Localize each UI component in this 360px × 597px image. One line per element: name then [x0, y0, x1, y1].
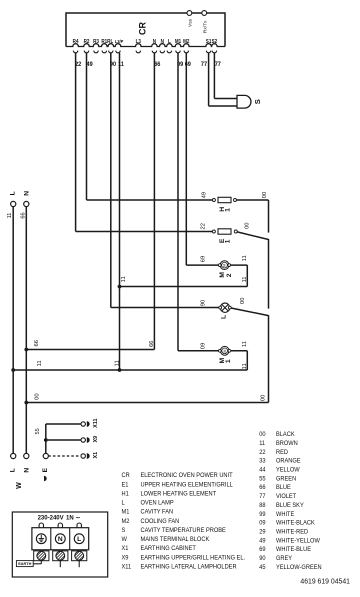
svg-text:90: 90 — [201, 300, 207, 306]
svg-text:88: 88 — [259, 502, 266, 509]
svg-text:M: M — [223, 264, 227, 267]
svg-text:COOLING FAN: COOLING FAN — [140, 517, 179, 524]
svg-text:66: 66 — [259, 484, 266, 491]
svg-text:55: 55 — [259, 475, 266, 482]
svg-text:66: 66 — [34, 340, 40, 346]
svg-text:49: 49 — [87, 62, 94, 68]
svg-text:X1: X1 — [93, 452, 99, 459]
svg-text:00: 00 — [259, 431, 266, 438]
svg-text:E: E — [42, 467, 49, 472]
svg-text:VIOLET: VIOLET — [276, 493, 296, 500]
svg-text:2: 2 — [226, 273, 233, 277]
svg-text:L: L — [220, 315, 227, 319]
svg-text:MAINS TERMINAL BLOCK: MAINS TERMINAL BLOCK — [140, 536, 209, 543]
svg-text:M: M — [219, 272, 226, 278]
svg-text:X11: X11 — [93, 419, 99, 428]
svg-text:00: 00 — [35, 393, 41, 399]
svg-text:N: N — [161, 39, 165, 45]
svg-text:L: L — [10, 468, 17, 472]
svg-text:Rx/Tx: Rx/Tx — [203, 20, 209, 33]
svg-text:R3: R3 — [93, 39, 99, 45]
svg-text:ELECTRONIC OVEN POWER UNIT: ELECTRONIC OVEN POWER UNIT — [140, 472, 232, 479]
svg-text:N: N — [153, 39, 157, 45]
svg-text:09: 09 — [201, 343, 207, 349]
svg-text:R2: R2 — [84, 39, 90, 45]
svg-text:00: 00 — [244, 222, 250, 228]
svg-text:BLUE: BLUE — [276, 484, 291, 491]
svg-text:66: 66 — [20, 212, 26, 218]
svg-text:M2: M2 — [183, 39, 190, 45]
svg-text:WHITE-BLACK: WHITE-BLACK — [276, 519, 315, 526]
svg-text:11: 11 — [121, 276, 127, 282]
svg-text:YELLOW-GREEN: YELLOW-GREEN — [276, 563, 322, 570]
svg-text:WHITE-YELLOW: WHITE-YELLOW — [276, 537, 320, 544]
svg-text:GREY: GREY — [276, 555, 292, 562]
svg-text:GREEN: GREEN — [276, 475, 296, 482]
svg-text:W: W — [122, 536, 128, 543]
svg-text:33: 33 — [259, 457, 266, 464]
svg-text:CAVITY TEMPERATURE PROBE: CAVITY TEMPERATURE PROBE — [140, 527, 225, 534]
svg-text:M1: M1 — [175, 39, 182, 45]
svg-text:BLUE SKY: BLUE SKY — [276, 502, 304, 509]
svg-text:WHITE-BLUE: WHITE-BLUE — [276, 546, 311, 553]
svg-text:11: 11 — [259, 440, 265, 447]
svg-text:ORANGE: ORANGE — [276, 457, 301, 464]
svg-text:L3: L3 — [136, 39, 142, 45]
svg-text:S: S — [122, 527, 126, 534]
svg-text:49: 49 — [259, 537, 266, 544]
svg-text:55: 55 — [35, 428, 41, 434]
svg-text:69: 69 — [201, 256, 207, 262]
svg-text:CAVITY FAN: CAVITY FAN — [140, 508, 173, 515]
svg-text:EARTHING UPPER/GRILL HEATING E: EARTHING UPPER/GRILL HEATING EL. — [140, 554, 245, 561]
svg-text:L3/P: L3/P — [115, 39, 124, 44]
svg-text:99: 99 — [259, 510, 266, 517]
svg-text:X1: X1 — [122, 545, 130, 552]
svg-text:EARTHING CABINET: EARTHING CABINET — [140, 545, 196, 552]
svg-text:22: 22 — [201, 223, 207, 229]
svg-text:4619 619 04541: 4619 619 04541 — [300, 577, 350, 585]
svg-text:S: S — [253, 99, 262, 104]
svg-text:WHITE-RED: WHITE-RED — [276, 528, 309, 535]
svg-text:CR: CR — [122, 472, 131, 479]
svg-text:N: N — [23, 191, 30, 196]
svg-text:66: 66 — [149, 341, 155, 347]
svg-text:WHITE: WHITE — [276, 510, 294, 517]
svg-text:11: 11 — [114, 360, 120, 366]
svg-text:00: 00 — [262, 192, 268, 198]
svg-text:11: 11 — [242, 255, 248, 261]
svg-text:09: 09 — [259, 519, 266, 526]
svg-text:Vss: Vss — [188, 18, 194, 27]
svg-text:RL: RL — [107, 39, 113, 45]
svg-text:L: L — [168, 39, 171, 45]
svg-text:EARTH: EARTH — [18, 562, 31, 566]
svg-text:22: 22 — [259, 449, 266, 456]
svg-text:77: 77 — [215, 62, 222, 68]
svg-text:00: 00 — [261, 395, 267, 401]
svg-text:90: 90 — [259, 555, 266, 562]
svg-text:UPPER HEATING ELEMENT/GRILL: UPPER HEATING ELEMENT/GRILL — [140, 481, 233, 488]
svg-text:L: L — [77, 536, 81, 543]
svg-text:1: 1 — [225, 208, 232, 212]
svg-text:YELLOW: YELLOW — [276, 466, 300, 473]
svg-text:11: 11 — [242, 276, 248, 282]
svg-text:M: M — [223, 349, 227, 352]
svg-text:230-240V 1N ∼: 230-240V 1N ∼ — [38, 516, 81, 522]
svg-text:77: 77 — [259, 493, 266, 500]
svg-text:N: N — [58, 536, 63, 543]
svg-text:11: 11 — [37, 360, 43, 366]
svg-text:L: L — [10, 191, 17, 195]
svg-text:29: 29 — [259, 528, 266, 535]
svg-text:S2: S2 — [212, 39, 218, 45]
svg-text:66: 66 — [154, 62, 161, 68]
svg-text:LOWER HEATING ELEMENT: LOWER HEATING ELEMENT — [140, 490, 216, 497]
svg-text:00: 00 — [240, 297, 246, 303]
svg-text:77: 77 — [201, 62, 208, 68]
svg-text:1: 1 — [225, 239, 232, 243]
svg-text:69: 69 — [259, 546, 266, 553]
svg-text:M1: M1 — [122, 508, 130, 515]
svg-text:OVEN LAMP: OVEN LAMP — [140, 499, 173, 506]
svg-text:BLACK: BLACK — [276, 431, 295, 438]
svg-text:CR: CR — [138, 22, 148, 35]
svg-text:49: 49 — [202, 192, 208, 198]
svg-text:R4: R4 — [73, 39, 79, 45]
svg-text:X9: X9 — [93, 436, 99, 443]
svg-text:X11: X11 — [122, 563, 132, 570]
svg-text:E1: E1 — [122, 481, 130, 488]
svg-text:45: 45 — [259, 563, 266, 570]
svg-text:H1: H1 — [122, 490, 130, 497]
svg-text:EARTHING LATERAL LAMPHOLDER: EARTHING LATERAL LAMPHOLDER — [140, 563, 237, 570]
svg-text:1: 1 — [225, 359, 232, 363]
svg-text:W: W — [16, 482, 23, 489]
svg-text:BROWN: BROWN — [276, 440, 298, 447]
svg-text:M2: M2 — [122, 517, 130, 524]
svg-text:11: 11 — [242, 363, 248, 369]
svg-text:N: N — [23, 468, 30, 473]
svg-text:X9: X9 — [122, 554, 130, 561]
svg-text:11: 11 — [7, 213, 13, 219]
svg-text:RED: RED — [276, 449, 289, 456]
svg-text:11: 11 — [242, 341, 248, 347]
svg-text:44: 44 — [259, 466, 266, 473]
